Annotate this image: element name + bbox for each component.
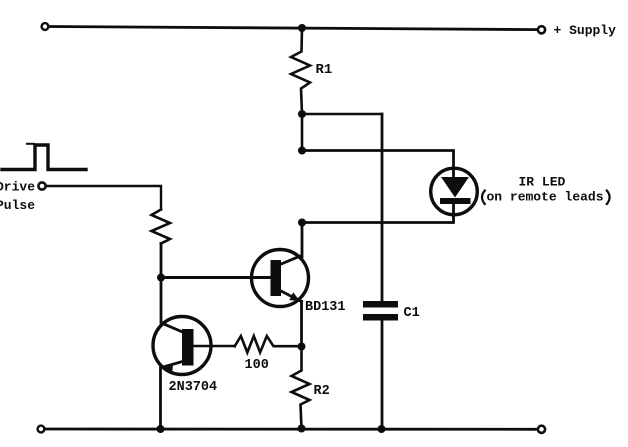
node 2N3704 emitter / rail xyxy=(157,425,165,433)
drive pulse pen tick xyxy=(27,143,34,145)
node A (R1 bottom) xyxy=(298,110,306,118)
resistor R1 xyxy=(291,28,310,114)
label (on remote leads) xyxy=(482,190,610,205)
wire 2N3704 emitter to rail xyxy=(159,368,162,430)
svg-text:BD131: BD131 xyxy=(305,300,346,315)
resistor drive (unlabelled) xyxy=(152,210,171,244)
wire LED cathode to node C xyxy=(302,216,454,223)
terminal top-right supply xyxy=(538,26,545,33)
capacitor C1 xyxy=(363,301,398,321)
wire node E to BD131 base xyxy=(161,276,271,279)
wire node C to BD131 collector xyxy=(301,223,304,258)
wire bottom rail xyxy=(45,428,539,431)
wire top supply rail xyxy=(49,27,538,30)
wire drive resistor to node E xyxy=(160,244,163,278)
transistor Q2 BD131 xyxy=(252,250,309,307)
svg-text:Drive: Drive xyxy=(0,180,35,195)
svg-text:+ Supply: + Supply xyxy=(554,23,617,38)
drive pulse waveform xyxy=(2,145,86,170)
terminal top-left supply xyxy=(42,23,49,30)
node C (BD131 collector) xyxy=(298,219,306,227)
wire node E to 2N3704 collector xyxy=(160,278,163,324)
wire node B to LED anode xyxy=(302,151,454,168)
wire BD131 emitter to node D xyxy=(300,302,303,347)
node top rail / R1 top xyxy=(298,24,306,32)
transistor Q1 2N3704 xyxy=(153,317,211,375)
svg-text:R1: R1 xyxy=(316,62,333,78)
node D (emitter / R2 / 100) xyxy=(298,343,306,351)
svg-text:on remote leads: on remote leads xyxy=(487,190,604,205)
svg-text:100: 100 xyxy=(245,358,269,373)
svg-text:C1: C1 xyxy=(404,306,420,321)
svg-text:R2: R2 xyxy=(314,384,330,399)
wire C1 upper lead xyxy=(381,114,384,302)
wire node A to node B xyxy=(301,114,304,151)
terminal bottom-right xyxy=(538,426,545,433)
node E (BD131 base / 2N3704 collector) xyxy=(157,274,165,282)
wire node A to C1 branch xyxy=(302,113,382,116)
svg-text:2N3704: 2N3704 xyxy=(169,380,218,395)
terminal drive pulse input xyxy=(38,182,45,189)
svg-text:Pulse: Pulse xyxy=(0,198,35,213)
resistor 100 (base resistor) xyxy=(235,336,302,353)
node C1 / rail xyxy=(378,425,386,433)
wire drive input to base resistor xyxy=(46,186,161,210)
resistor R2 xyxy=(292,347,310,429)
node R2 / rail xyxy=(298,425,306,433)
svg-text:IR LED: IR LED xyxy=(519,175,566,190)
node B (LED branch) xyxy=(298,147,306,155)
IR LED D1 xyxy=(431,168,478,216)
wire C1 lower lead xyxy=(381,321,384,430)
wire 2N3704 base lead xyxy=(194,345,235,348)
terminal bottom-left xyxy=(38,426,45,433)
